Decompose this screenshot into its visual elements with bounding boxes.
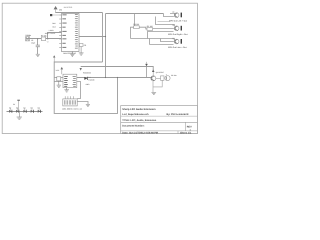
svg-text:+: +: [166, 73, 167, 76]
ground below U1: [70, 52, 74, 57]
wire rail to Q4: [81, 67, 154, 71]
transistor Q1: [174, 13, 179, 18]
svg-text:C5: C5: [84, 44, 86, 47]
wire corner to Q1 base: [164, 14, 174, 17]
wire stub below Q1: [158, 21, 171, 23]
U1 left pin name labels: [62, 14, 66, 47]
transistor Q3: [174, 39, 179, 44]
svg-text:Sharp LXO Audio Extension: Sharp LXO Audio Extension: [122, 108, 156, 111]
U1 left pin stubs: [59, 15, 61, 48]
wire node A vertical: [102, 13, 104, 63]
diode D2: [9, 110, 12, 113]
wire U1 right pin to bus: [79, 36, 106, 38]
power arrow VCC2: [61, 67, 64, 74]
diode row top ticks: [10, 108, 39, 110]
border frame: [2, 3, 197, 133]
wire drop to R2: [134, 14, 136, 26]
power arrow at rail junction: [145, 62, 148, 67]
wire Q4 emitter to ground: [152, 81, 154, 92]
junction: [117, 77, 118, 78]
ground below diode row: [17, 111, 22, 119]
capacitor C7 on input: [57, 77, 61, 81]
junction: [37, 38, 38, 39]
svg-text:SPK Out Left + Out: SPK Out Left + Out: [169, 20, 187, 23]
svg-text:5V: 5V: [13, 103, 16, 106]
wire R3 right to Q2 base: [153, 28, 174, 30]
svg-text:LED_Matrix_Conn_14: LED_Matrix_Conn_14: [62, 108, 82, 111]
svg-text:Lcd_SuperVolcano.sch: Lcd_SuperVolcano.sch: [122, 113, 149, 116]
junction: [105, 36, 106, 37]
wire Q4 right: [156, 78, 161, 80]
svg-text:Q1: Q1: [172, 10, 174, 13]
capacitor C9 electrolytic: [165, 76, 170, 81]
J2 top pin stubs: [65, 96, 73, 99]
wire pin1: [52, 14, 59, 16]
wire Q2 lower: [148, 32, 174, 39]
net flag on U1 pin 1: [50, 14, 52, 16]
svg-text:MAX7219CNG: MAX7219CNG: [63, 52, 76, 55]
title block divider 4: [121, 130, 198, 132]
svg-text:U1: U1: [59, 9, 63, 12]
connector J5 bar: [181, 39, 182, 44]
svg-text:D2: D2: [9, 107, 11, 110]
transistor Q4: [151, 76, 156, 81]
svg-text:V+: V+: [47, 41, 49, 44]
crystal X1: [26, 37, 30, 41]
svg-text:C9 10u: C9 10u: [171, 74, 177, 77]
resistor R2: [134, 26, 140, 29]
svg-text:Q2: Q2: [172, 24, 174, 27]
ground below Q4: [151, 92, 156, 94]
svg-text:GND: GND: [86, 83, 91, 86]
svg-text:22pF: 22pF: [31, 41, 35, 44]
svg-text:VCC: VCC: [56, 69, 60, 72]
svg-text:DIN: DIN: [52, 22, 56, 25]
svg-text:16MHz: 16MHz: [25, 34, 31, 37]
title block sheet cell divider: [177, 131, 179, 134]
wire R2 left branch: [131, 27, 134, 38]
connector J4 bar: [181, 26, 182, 31]
wire Q2 collector feed: [156, 17, 175, 27]
title block divider 3: [121, 121, 198, 123]
svg-text:LOAD: LOAD: [49, 29, 55, 32]
wire U2 output long: [77, 77, 152, 79]
IC U2 body: [63, 74, 77, 87]
power arrow down at rail: [80, 68, 82, 71]
svg-text:D6: D6: [38, 107, 40, 110]
wire U2 left input 2: [54, 81, 63, 83]
wire top rail to stages: [106, 13, 164, 15]
svg-text:R3 100: R3 100: [147, 25, 153, 28]
wire U2 left input: [54, 77, 63, 79]
diode D3: [16, 110, 19, 113]
svg-text:PAM8403: PAM8403: [83, 72, 91, 75]
svg-text:Q3: Q3: [172, 37, 174, 40]
title block divider 2: [121, 115, 198, 117]
power arrow near box corner: [53, 55, 55, 62]
wire arrow to Q4: [152, 72, 154, 76]
wire rail drop to output wire: [146, 67, 148, 78]
svg-text:1N4148: 1N4148: [88, 79, 94, 82]
svg-text:Q4 BC547: Q4 BC547: [156, 71, 164, 74]
svg-text:D5: D5: [31, 107, 33, 110]
wire C8 return: [153, 80, 162, 87]
svg-text:D3: D3: [16, 107, 18, 110]
svg-text:CLK: CLK: [52, 25, 56, 28]
U1 right pin number labels: [75, 14, 78, 48]
wire lower rail to Q3: [131, 39, 175, 41]
diode D5: [31, 110, 34, 113]
ground below U2: [64, 88, 69, 92]
junction: [47, 38, 48, 39]
title block box: [121, 106, 198, 134]
wire R2 to R3: [139, 27, 147, 29]
wire J2 right to ground: [77, 102, 88, 105]
wire Q1 collector drop: [170, 13, 175, 16]
connector J2 body: [63, 99, 77, 106]
wire lower box loop: [54, 62, 117, 113]
wire Q3 lower: [150, 39, 174, 45]
svg-text:MAX7219: MAX7219: [64, 6, 72, 9]
diode D4: [23, 110, 26, 113]
svg-text:D4: D4: [23, 107, 25, 110]
wire U2 aux down to J2: [77, 82, 81, 99]
svg-text:R2 100: R2 100: [133, 23, 139, 26]
capacitor C8: [161, 76, 165, 80]
power symbol VCC (top, above U1): [54, 7, 57, 13]
wire bus vertical: [105, 14, 107, 78]
wire diode row: [7, 111, 43, 113]
power bar 5V (diode row): [17, 100, 20, 111]
connector J3 bar: [181, 13, 182, 18]
svg-text:Date: Sun 21/7/2013 4:50:48 PM: Date: Sun 21/7/2013 4:50:48 PM: [122, 131, 158, 134]
diode D1: [84, 77, 87, 80]
junction: [105, 77, 106, 78]
wire VCC rail to node A: [56, 12, 103, 14]
wire main left cluster: [26, 38, 62, 40]
J2 hatch pins: [64, 100, 75, 104]
svg-text:SPK Out Line + Out: SPK Out Line + Out: [168, 46, 187, 49]
svg-text:D1: D1: [88, 76, 90, 79]
svg-text:By: Phil Leistentritt: By: Phil Leistentritt: [167, 113, 189, 116]
resistor R9: [41, 37, 45, 41]
svg-text:TITLE: LXO_Audio_Extension: TITLE: LXO_Audio_Extension: [122, 119, 156, 122]
svg-text:Sheet: 1/1: Sheet: 1/1: [180, 131, 192, 134]
U2 right pin labels: [73, 76, 76, 87]
resistor R3: [147, 28, 153, 31]
ground right of J2: [86, 104, 90, 106]
wire Q3 base: [161, 39, 174, 42]
svg-text:Document Number:: Document Number:: [122, 124, 144, 127]
svg-text:REV: REV: [187, 126, 192, 129]
capacitor C1: [36, 39, 40, 54]
svg-text:SPK Out Right + Out: SPK Out Right + Out: [168, 33, 188, 36]
ground below C5: [79, 47, 84, 56]
power arrow at Q4 collector: [152, 69, 155, 72]
wire to pin5: [48, 33, 62, 39]
ground below C7: [57, 81, 61, 87]
title block REV cell divider: [185, 122, 187, 131]
transistor Q2: [174, 26, 179, 31]
ground below C1: [36, 54, 40, 56]
svg-text:DVCC: DVCC: [50, 32, 56, 35]
capacitor C5 right of U1: [79, 44, 83, 47]
diode D6: [38, 110, 41, 113]
U2 left pin labels: [64, 76, 68, 87]
IC U1 body: [62, 14, 80, 52]
